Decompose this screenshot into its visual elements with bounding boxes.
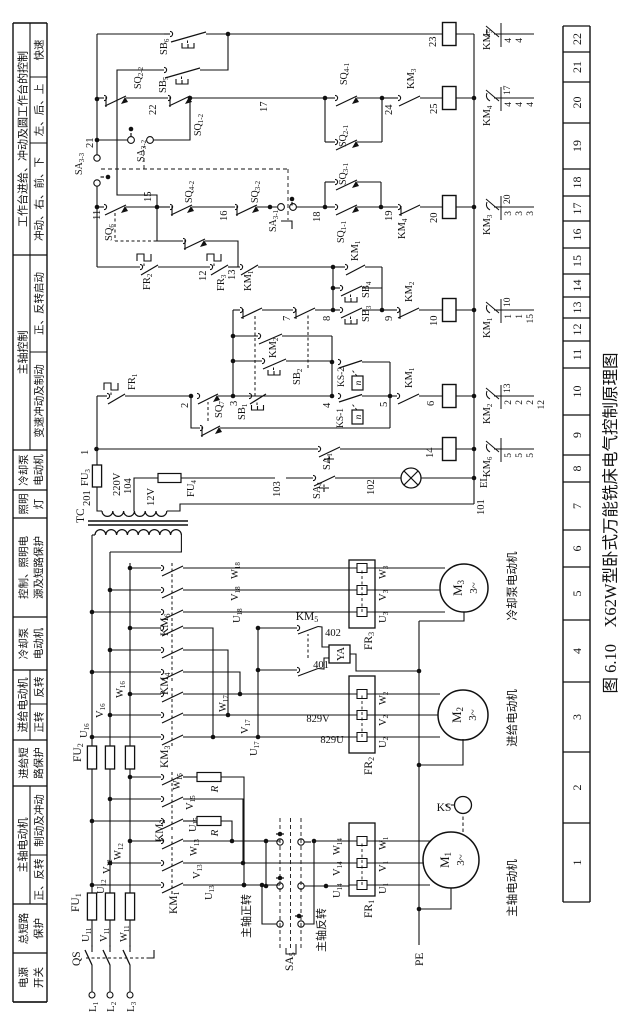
- KM5 coil rung: [228, 33, 443, 35]
- svg-text:9: 9: [384, 316, 395, 321]
- svg-text:2: 2: [526, 400, 536, 405]
- SA5 cross wire b: [262, 886, 277, 924]
- svg-text:7: 7: [282, 316, 293, 321]
- svg-text:10: 10: [429, 316, 440, 327]
- SB1 linkage dashed: [254, 315, 256, 396]
- wire U13: [183, 884, 280, 886]
- wire to KM5 branch: [257, 628, 259, 737]
- resistor R (phase U): [183, 820, 197, 822]
- svg-text:16: 16: [219, 211, 230, 222]
- svg-text:3: 3: [570, 714, 584, 720]
- svg-text:制动及冲动: 制动及冲动: [33, 794, 46, 847]
- svg-text:5: 5: [570, 591, 584, 597]
- svg-text:3: 3: [229, 401, 240, 406]
- PE wire: [418, 621, 420, 945]
- svg-text:路保护: 路保护: [32, 747, 45, 779]
- wires FR2 to M2: [375, 736, 440, 738]
- svg-text:4: 4: [504, 38, 514, 43]
- svg-text:冷却泵: 冷却泵: [17, 627, 30, 659]
- reversing switch SA5: [277, 839, 283, 845]
- contactor KM2 main contacts: [161, 818, 164, 823]
- svg-text:24: 24: [384, 104, 395, 115]
- wire 8: [332, 267, 334, 310]
- KM6 coil rung: [97, 448, 319, 450]
- bus to TC primary: [92, 534, 95, 536]
- svg-text:829V: 829V: [306, 714, 330, 725]
- TC secondary bottom wire 101: [167, 504, 474, 511]
- SB2 linkage dashed: [307, 315, 309, 368]
- rapid button SB5: [164, 67, 167, 72]
- svg-text:10: 10: [570, 386, 584, 398]
- wire YA to PE: [350, 654, 419, 671]
- svg-text:5: 5: [379, 402, 390, 407]
- bus taps KM2 branch: [90, 819, 95, 824]
- svg-text:201: 201: [82, 490, 93, 506]
- svg-text:3~: 3~: [467, 709, 479, 721]
- bus phase2: [109, 552, 111, 893]
- rapid button SB6: [164, 33, 170, 35]
- svg-text:20: 20: [429, 213, 440, 224]
- svg-text:KS-1: KS-1: [336, 408, 346, 428]
- switch SA3-1: [278, 204, 285, 211]
- bus taps M1 branch: [90, 883, 95, 888]
- thermal relay FR1 heaters: [349, 823, 375, 896]
- KM4 coil rung top: [97, 97, 104, 99]
- transformer TC: [95, 530, 181, 535]
- svg-text:20: 20: [503, 194, 513, 204]
- svg-text:6: 6: [570, 546, 584, 552]
- svg-text:3~: 3~: [468, 582, 480, 594]
- svg-text:5: 5: [504, 453, 514, 458]
- solenoid YA: [318, 627, 329, 648]
- fuse FU2 (3x): [87, 746, 96, 769]
- feed supply wire: [97, 266, 140, 268]
- coil KM2: [443, 385, 457, 408]
- bus taps KM3 branch: [90, 735, 95, 740]
- resistor R (phase W): [183, 776, 197, 778]
- svg-text:进给电动机: 进给电动机: [505, 689, 519, 747]
- stop button SB1: [249, 393, 252, 398]
- svg-text:保护: 保护: [32, 918, 45, 939]
- wire QS to FU1 phase2: [109, 920, 111, 947]
- jog bypass SQ7-2: [191, 396, 200, 428]
- selfhold KM1 aux (parallel): [333, 266, 345, 268]
- jog contact SQ6-2: [114, 213, 116, 241]
- start button SB3: [333, 309, 340, 311]
- KM3 coil rung top: [97, 206, 104, 208]
- svg-text:YA: YA: [336, 647, 347, 661]
- svg-text:2: 2: [515, 400, 525, 405]
- svg-text:5: 5: [526, 453, 536, 458]
- bus taps KM6 branch: [90, 610, 95, 615]
- limit switch SQ3-2: [235, 204, 238, 209]
- svg-text:12V: 12V: [146, 488, 157, 507]
- coil KM6: [443, 438, 457, 461]
- limit switch SQ4-1: [325, 97, 335, 99]
- svg-text:冲动、右、前、下: 冲动、右、前、下: [33, 157, 46, 241]
- wire U14: [304, 885, 349, 887]
- thermal relay FR2 heaters: [349, 676, 375, 753]
- TC secondary top to FU3: [97, 487, 102, 511]
- KM6 output wires: [183, 611, 349, 613]
- svg-text:控制、照明电: 控制、照明电: [17, 536, 30, 599]
- bus phase1: [91, 535, 93, 893]
- svg-text:6: 6: [426, 401, 437, 406]
- svg-text:3~: 3~: [455, 854, 467, 866]
- svg-text:电源: 电源: [17, 967, 30, 988]
- svg-text:13: 13: [227, 270, 238, 281]
- interlock KM2 NC: [397, 307, 400, 312]
- header table frame: [12, 23, 14, 1002]
- contactor KM5 contacts: [258, 627, 297, 629]
- SA5 dashed linkage: [279, 818, 281, 948]
- limit switch SQ1-2: [168, 95, 171, 100]
- thermal contact FR2: [140, 264, 143, 269]
- wire L1 to QS: [91, 969, 93, 992]
- motor M1: [423, 832, 479, 888]
- svg-text:正转: 正转: [33, 711, 46, 732]
- wire 4 node: [330, 394, 335, 399]
- svg-text:103: 103: [272, 481, 283, 497]
- svg-text:4: 4: [322, 402, 333, 408]
- coil KM3: [443, 196, 457, 219]
- PE stub M1: [419, 888, 451, 909]
- PE stub M3: [419, 612, 464, 621]
- svg-text:总短路: 总短路: [17, 912, 30, 944]
- svg-text:20: 20: [570, 97, 584, 109]
- svg-text:进给电动机: 进给电动机: [16, 678, 30, 733]
- svg-text:7: 7: [570, 503, 584, 509]
- svg-text:快速: 快速: [34, 39, 46, 60]
- svg-text:主轴控制: 主轴控制: [16, 331, 30, 375]
- KM4 output cross wires: [183, 672, 240, 694]
- svg-text:12: 12: [537, 400, 547, 410]
- KM3 output wires: [183, 736, 349, 738]
- terminal L1: [89, 992, 95, 998]
- svg-text:13: 13: [570, 302, 584, 314]
- KM2 branch return wires: [221, 821, 232, 841]
- svg-text:23: 23: [428, 37, 439, 48]
- limit switch SQ3-1 parallel: [324, 182, 326, 207]
- feed bus wire 11: [96, 186, 98, 267]
- svg-text:主轴正转: 主轴正转: [239, 894, 253, 938]
- svg-text:照明: 照明: [18, 494, 30, 515]
- stop button SB1 NC pole: [240, 307, 243, 312]
- SA5 cross wire c: [304, 841, 314, 924]
- svg-text:14: 14: [425, 447, 436, 458]
- svg-text:11: 11: [570, 349, 584, 361]
- svg-text:13: 13: [503, 383, 513, 393]
- svg-text:1: 1: [80, 450, 91, 455]
- wire QS to FU1 phase3: [129, 920, 131, 947]
- svg-text:19: 19: [384, 211, 395, 222]
- limit switch SQ6: [104, 204, 107, 209]
- wire L2 to QS: [109, 969, 111, 992]
- svg-text:正、反转: 正、反转: [33, 858, 46, 900]
- svg-text:4: 4: [526, 102, 536, 107]
- coil KM1: [443, 299, 457, 322]
- coil KM5: [443, 23, 457, 46]
- speed relay KS: [455, 797, 472, 814]
- fuse FU1 (3x): [87, 893, 96, 920]
- KM2 coil rung top / FR1: [97, 395, 107, 397]
- svg-text:829U: 829U: [320, 735, 344, 746]
- svg-text:正、反转启动: 正、反转启动: [33, 272, 46, 335]
- wire to KS-2: [331, 362, 333, 396]
- wires FR1 to M1: [375, 884, 430, 886]
- svg-text:KS: KS: [437, 802, 452, 814]
- wire 15 to SB5: [117, 70, 164, 207]
- svg-text:工作台进给、冲动及圆工作台的控制: 工作台进给、冲动及圆工作台的控制: [16, 51, 30, 227]
- svg-text:101: 101: [476, 499, 487, 515]
- svg-text:22: 22: [570, 33, 584, 45]
- wire QS to FU1 phase1: [91, 920, 93, 947]
- svg-text:15: 15: [526, 314, 536, 324]
- svg-text:8: 8: [322, 316, 333, 321]
- svg-text:18: 18: [570, 177, 584, 189]
- svg-text:4: 4: [570, 648, 584, 654]
- svg-text:冷却泵电动机: 冷却泵电动机: [505, 551, 519, 620]
- lighting rung wire: [181, 477, 275, 479]
- wire 1: [96, 396, 98, 465]
- svg-text:25: 25: [429, 104, 440, 115]
- contactor KM6 main contacts: [161, 609, 164, 614]
- interlock KM3 NO: [398, 95, 401, 100]
- switch SA4: [313, 475, 316, 480]
- svg-text:11: 11: [92, 210, 103, 220]
- lamp EL: [401, 468, 421, 488]
- svg-text:12: 12: [570, 324, 584, 336]
- svg-text:QS: QS: [71, 951, 83, 966]
- limit switch SQ1-1: [325, 206, 335, 208]
- TC primary return: [110, 535, 181, 552]
- switch SA3-2: [97, 139, 128, 141]
- limit switch SQ2-1 parallel: [324, 98, 326, 142]
- switch SA1: [318, 446, 321, 451]
- svg-text:灯: 灯: [33, 498, 45, 509]
- svg-text:9: 9: [570, 432, 584, 438]
- bottom rail: [473, 34, 475, 504]
- selfhold KM2 aux: [233, 335, 258, 337]
- svg-text:3: 3: [504, 211, 514, 216]
- wire W14: [314, 840, 349, 842]
- svg-text:22: 22: [148, 105, 159, 116]
- svg-text:反转: 反转: [33, 676, 46, 697]
- bus taps KM4 branch: [90, 670, 95, 675]
- interlock KM4 NC: [398, 204, 401, 209]
- svg-text:220V: 220V: [112, 472, 123, 496]
- contactor KM3 main contacts: [161, 734, 164, 739]
- svg-text:冷却泵: 冷却泵: [17, 454, 30, 486]
- SA5 cross wire a: [265, 841, 267, 886]
- svg-text:15: 15: [570, 255, 584, 267]
- thermal contact FR3: [210, 264, 213, 269]
- svg-text:左、后、上: 左、后、上: [33, 84, 46, 137]
- svg-text:17: 17: [259, 102, 270, 113]
- svg-text:图 6.10 X62W型卧式万能铣床电气控制原理图: 图 6.10 X62W型卧式万能铣床电气控制原理图: [601, 353, 620, 694]
- svg-text:进给短: 进给短: [17, 747, 30, 779]
- svg-text:KS-2: KS-2: [337, 367, 347, 387]
- SA3 linkage dashed: [101, 168, 288, 170]
- wire V13: [183, 862, 350, 864]
- svg-text:电动机: 电动机: [32, 627, 45, 659]
- svg-text:1: 1: [515, 314, 525, 319]
- contactor KM1 main contacts: [161, 882, 164, 887]
- wire W13: [183, 840, 280, 842]
- feed enable KM1 aux: [240, 264, 243, 269]
- PE stub M2: [419, 739, 463, 765]
- svg-text:主轴反转: 主轴反转: [314, 908, 328, 952]
- svg-text:16: 16: [570, 229, 584, 241]
- svg-text:2: 2: [180, 403, 191, 408]
- svg-text:21: 21: [85, 138, 96, 149]
- fuse FU3: [92, 465, 101, 487]
- TC 12V tap: [134, 478, 158, 511]
- terminal L2: [107, 992, 113, 998]
- wire L3 to QS: [129, 969, 131, 992]
- svg-text:PE: PE: [414, 953, 426, 966]
- svg-text:变速冲动及制动: 变速冲动及制动: [33, 364, 46, 438]
- svg-text:1: 1: [504, 314, 514, 319]
- svg-text:2: 2: [570, 785, 584, 791]
- fuse FU4: [158, 474, 181, 483]
- svg-text:10: 10: [503, 297, 513, 307]
- thermal contact FR1: [107, 393, 110, 398]
- svg-text:R: R: [209, 829, 221, 837]
- contactor KM4 main contacts: [161, 669, 164, 674]
- column numbers row: [562, 26, 564, 902]
- svg-text:102: 102: [366, 479, 377, 495]
- svg-text:14: 14: [570, 280, 584, 292]
- svg-text:104: 104: [123, 478, 134, 495]
- terminal L3: [127, 992, 133, 998]
- svg-text:3: 3: [515, 211, 525, 216]
- wire 5: [389, 362, 391, 428]
- svg-text:15: 15: [143, 192, 154, 203]
- interlock KM1 aux NO: [397, 393, 400, 398]
- svg-text:n: n: [354, 414, 364, 419]
- svg-text:4: 4: [515, 102, 525, 107]
- limit switch SQ7-1: [197, 393, 200, 398]
- svg-text:TC: TC: [75, 508, 87, 523]
- svg-text:12: 12: [198, 271, 209, 282]
- svg-text:4: 4: [504, 102, 514, 107]
- stop button SB2 NO: [233, 360, 262, 362]
- coil KM4: [443, 87, 457, 110]
- svg-text:21: 21: [570, 61, 584, 73]
- svg-text:电动机: 电动机: [32, 454, 45, 486]
- thermal relay FR3 heaters: [349, 560, 375, 628]
- svg-text:17: 17: [570, 203, 584, 215]
- svg-text:主轴电动机: 主轴电动机: [16, 818, 30, 873]
- svg-text:5: 5: [515, 453, 525, 458]
- wires FR3 to M3: [375, 611, 445, 613]
- svg-text:n: n: [354, 380, 364, 385]
- limit switch SQ4-2: [157, 206, 170, 208]
- stop button SB2 NC pole: [293, 307, 296, 312]
- start button SB4: [333, 287, 340, 289]
- switch QS: [91, 965, 93, 969]
- svg-text:主轴电动机: 主轴电动机: [505, 859, 519, 917]
- svg-text:2: 2: [504, 400, 514, 405]
- svg-text:1: 1: [570, 860, 584, 866]
- bus phase3: [129, 563, 131, 893]
- header cells: [13, 1001, 47, 1003]
- svg-text:19: 19: [570, 140, 584, 152]
- PE stub YA: [417, 669, 422, 674]
- svg-text:源及短路保护: 源及短路保护: [32, 536, 45, 599]
- switch SA3-3: [94, 180, 100, 186]
- svg-text:17: 17: [503, 85, 513, 95]
- speed relay contact KS-2: [338, 359, 341, 364]
- svg-text:18: 18: [312, 212, 323, 223]
- wire 3 branch: [232, 310, 234, 396]
- KM1 coil rung: [233, 309, 240, 311]
- svg-text:401: 401: [313, 660, 329, 671]
- svg-text:402: 402: [325, 628, 341, 639]
- motor M2: [438, 690, 488, 740]
- svg-text:4: 4: [515, 38, 525, 43]
- speed relay contact KS-1: [338, 393, 341, 398]
- svg-text:3: 3: [526, 211, 536, 216]
- motor M3: [440, 564, 488, 612]
- svg-text:8: 8: [570, 466, 584, 472]
- svg-text:R: R: [209, 785, 221, 793]
- svg-text:开关: 开关: [32, 967, 45, 988]
- limit switch SQ2-2: [104, 95, 107, 100]
